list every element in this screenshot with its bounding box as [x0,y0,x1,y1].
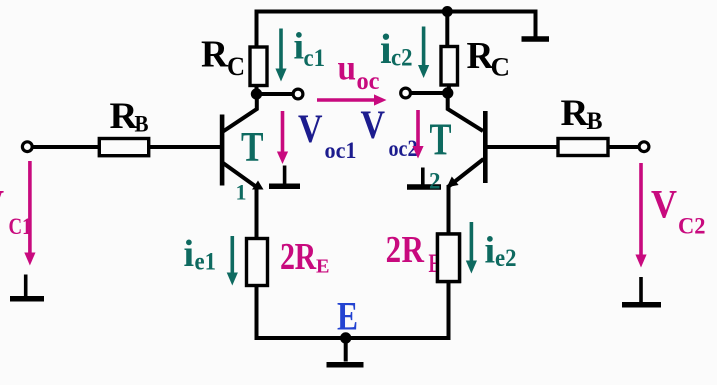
svg-text:oc1: oc1 [325,138,357,163]
svg-text:R: R [561,93,590,134]
svg-text:E: E [337,294,358,339]
svg-text:1: 1 [236,180,247,205]
svg-text:V: V [0,182,4,227]
svg-text:V: V [651,182,677,227]
svg-text:c1: c1 [304,45,326,72]
svg-text:R: R [201,34,229,76]
svg-text:2: 2 [429,169,441,194]
svg-text:C: C [227,52,245,81]
svg-text:T: T [430,114,452,165]
svg-text:i: i [294,26,305,68]
svg-text:B: B [587,108,603,135]
svg-text:T: T [241,125,264,171]
svg-text:c2: c2 [391,45,413,72]
svg-text:R: R [402,229,425,271]
svg-text:V: V [361,102,386,147]
svg-text:e1: e1 [195,249,217,276]
svg-text:R: R [295,236,317,278]
svg-text:oc: oc [357,68,380,95]
svg-text:V: V [298,106,323,151]
svg-text:C2: C2 [678,213,706,238]
svg-text:e2: e2 [495,245,517,272]
svg-text:2: 2 [280,236,295,278]
svg-text:u: u [338,48,357,88]
svg-text:i: i [184,233,195,275]
svg-text:B: B [135,112,149,137]
svg-text:2: 2 [386,229,402,271]
svg-text:E: E [316,255,330,277]
svg-text:oc2: oc2 [389,136,418,161]
svg-text:i: i [485,230,496,272]
svg-text:C1: C1 [9,214,32,239]
svg-text:C: C [491,53,511,82]
